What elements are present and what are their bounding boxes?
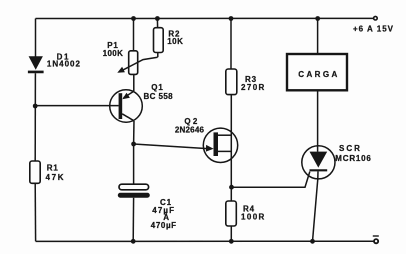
potentiometer P1 bbox=[117, 51, 157, 75]
wire R1 to bottom rail bbox=[34, 183, 36, 241]
resistor R4 bbox=[226, 201, 237, 226]
node R4 bottom bbox=[229, 239, 234, 244]
capacitor C1 bbox=[118, 144, 150, 241]
wire R2 bottom bbox=[157, 53, 159, 58]
svg-text:Q2: Q2 bbox=[184, 117, 199, 126]
node SCR cathode bottom bbox=[310, 239, 315, 244]
svg-text:Q1: Q1 bbox=[151, 83, 163, 92]
wire top rail bbox=[36, 17, 374, 19]
node CARGA top bbox=[315, 16, 320, 21]
diode D1 bbox=[28, 56, 44, 72]
wire CARGA to SCR bbox=[317, 90, 319, 152]
svg-text:100K: 100K bbox=[103, 49, 124, 58]
wire R3 to R4 bbox=[230, 95, 232, 201]
svg-text:MCR106: MCR106 bbox=[335, 154, 371, 163]
positive supply terminal bbox=[374, 16, 378, 20]
node P1 top bbox=[131, 16, 136, 21]
svg-text:2N2646: 2N2646 bbox=[175, 126, 205, 135]
wire Q1 base bbox=[35, 105, 118, 107]
wire R2 top bbox=[156, 19, 158, 28]
load box CARGA bbox=[287, 54, 347, 90]
svg-text:10K: 10K bbox=[167, 37, 183, 46]
wire Q2 emitter bbox=[134, 144, 214, 152]
wire R3 top bbox=[230, 19, 232, 70]
wire left rail top segment bbox=[35, 19, 37, 57]
resistor R1 bbox=[30, 161, 40, 183]
svg-text:270R: 270R bbox=[241, 83, 266, 92]
wire bottom rail bbox=[36, 240, 374, 242]
minus sign bbox=[373, 235, 379, 237]
node R4 top bbox=[229, 185, 234, 190]
svg-text:SCR: SCR bbox=[339, 144, 362, 153]
svg-text:R1: R1 bbox=[47, 164, 59, 173]
svg-text:100R: 100R bbox=[241, 213, 266, 222]
node R2 top bbox=[155, 16, 160, 21]
wire R4 bottom bbox=[230, 226, 232, 241]
svg-text:BC 558: BC 558 bbox=[144, 92, 174, 101]
wire CARGA top bbox=[317, 19, 319, 55]
node R3 top bbox=[229, 16, 234, 21]
wire P1 top bbox=[133, 19, 135, 51]
svg-text:+6 A 15V: +6 A 15V bbox=[353, 24, 394, 33]
wire SCR gate bbox=[232, 172, 310, 188]
svg-text:1N4002: 1N4002 bbox=[47, 59, 81, 68]
negative supply terminal bbox=[374, 239, 378, 243]
transistor Q2 bbox=[203, 128, 237, 162]
node C1 bottom bbox=[131, 239, 136, 244]
transistor Q1 bbox=[110, 74, 143, 144]
svg-text:470µF: 470µF bbox=[151, 221, 177, 230]
wire D1 to R1 bbox=[34, 73, 36, 161]
svg-text:47K: 47K bbox=[46, 173, 66, 182]
resistor R2 bbox=[154, 28, 164, 53]
node base junction bbox=[33, 104, 38, 109]
SCR MCR106 bbox=[302, 146, 335, 242]
resistor R3 bbox=[226, 69, 237, 95]
node C1 top bbox=[131, 142, 136, 147]
svg-text:CARGA: CARGA bbox=[298, 70, 339, 79]
